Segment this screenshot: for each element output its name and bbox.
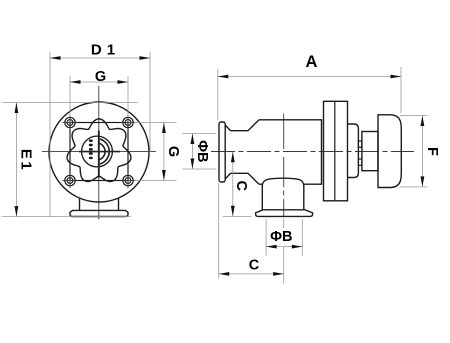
dimension G top extension lines [69,76,71,117]
dimension A extension lines [217,69,219,120]
knob center thick vertical centerline [98,131,100,178]
handwheel scalloped knob [67,119,131,182]
dimension D1 extension lines [49,52,51,217]
handwheel side profile [378,115,401,188]
centerline horizontal left view [42,151,156,153]
dimension C bottom extension line [218,183,220,279]
svg-text:G: G [95,69,106,85]
bonnet plate [324,101,348,201]
bottom neck left view [79,198,81,211]
dimension G right extension lines [134,122,177,124]
knob center hub circle [82,136,113,167]
dimension G right [163,123,165,181]
flange body circle [49,102,149,202]
valve body [259,120,322,184]
bolt B2 [120,115,135,130]
svg-text:D1: D1 [91,41,120,58]
svg-text:E1: E1 [18,149,35,172]
bolt B1 [62,115,77,130]
stem tabs [358,141,362,147]
dimension PhiB bottom [266,246,302,248]
bottom flange left view [70,210,128,216]
dimension F [421,116,423,187]
bonnet square plate [70,123,128,181]
svg-text:C: C [233,180,249,191]
dimension PhiB left [191,134,193,170]
bonnet collar [348,124,359,178]
port axis vertical centerline [283,114,285,150]
inlet flange disc [219,122,225,182]
knob logo text [89,140,93,160]
dimension E1 extension lines [2,102,138,104]
dimension G top [70,81,128,83]
centerline vertical left view [98,86,100,220]
svg-text:G: G [165,146,181,157]
svg-text:A: A [306,53,318,71]
wheel hub [362,132,378,171]
dimension C left vertical [223,216,251,218]
knob logo arcs [100,139,109,164]
bolt B4 [120,173,135,188]
dimension F extension lines [400,115,428,117]
dimension PhiB left extension lines [182,133,216,135]
bottom flange right view [256,210,313,217]
svg-text:ΦB: ΦB [194,140,210,162]
bolt B3 [62,173,77,188]
svg-text:F: F [424,147,440,156]
bottom port tube [261,185,263,210]
dimension PhiB bottom extension lines [265,219,267,256]
dimension A [218,76,401,78]
inlet cone left [225,120,259,184]
bottom port dome [262,178,304,185]
dimension E1 [15,103,17,217]
centerline horizontal right view [211,151,414,153]
svg-text:ΦB: ΦB [270,229,292,245]
dimension D1 [50,57,150,59]
dimension C bottom [219,273,284,275]
svg-text:C: C [249,258,260,274]
